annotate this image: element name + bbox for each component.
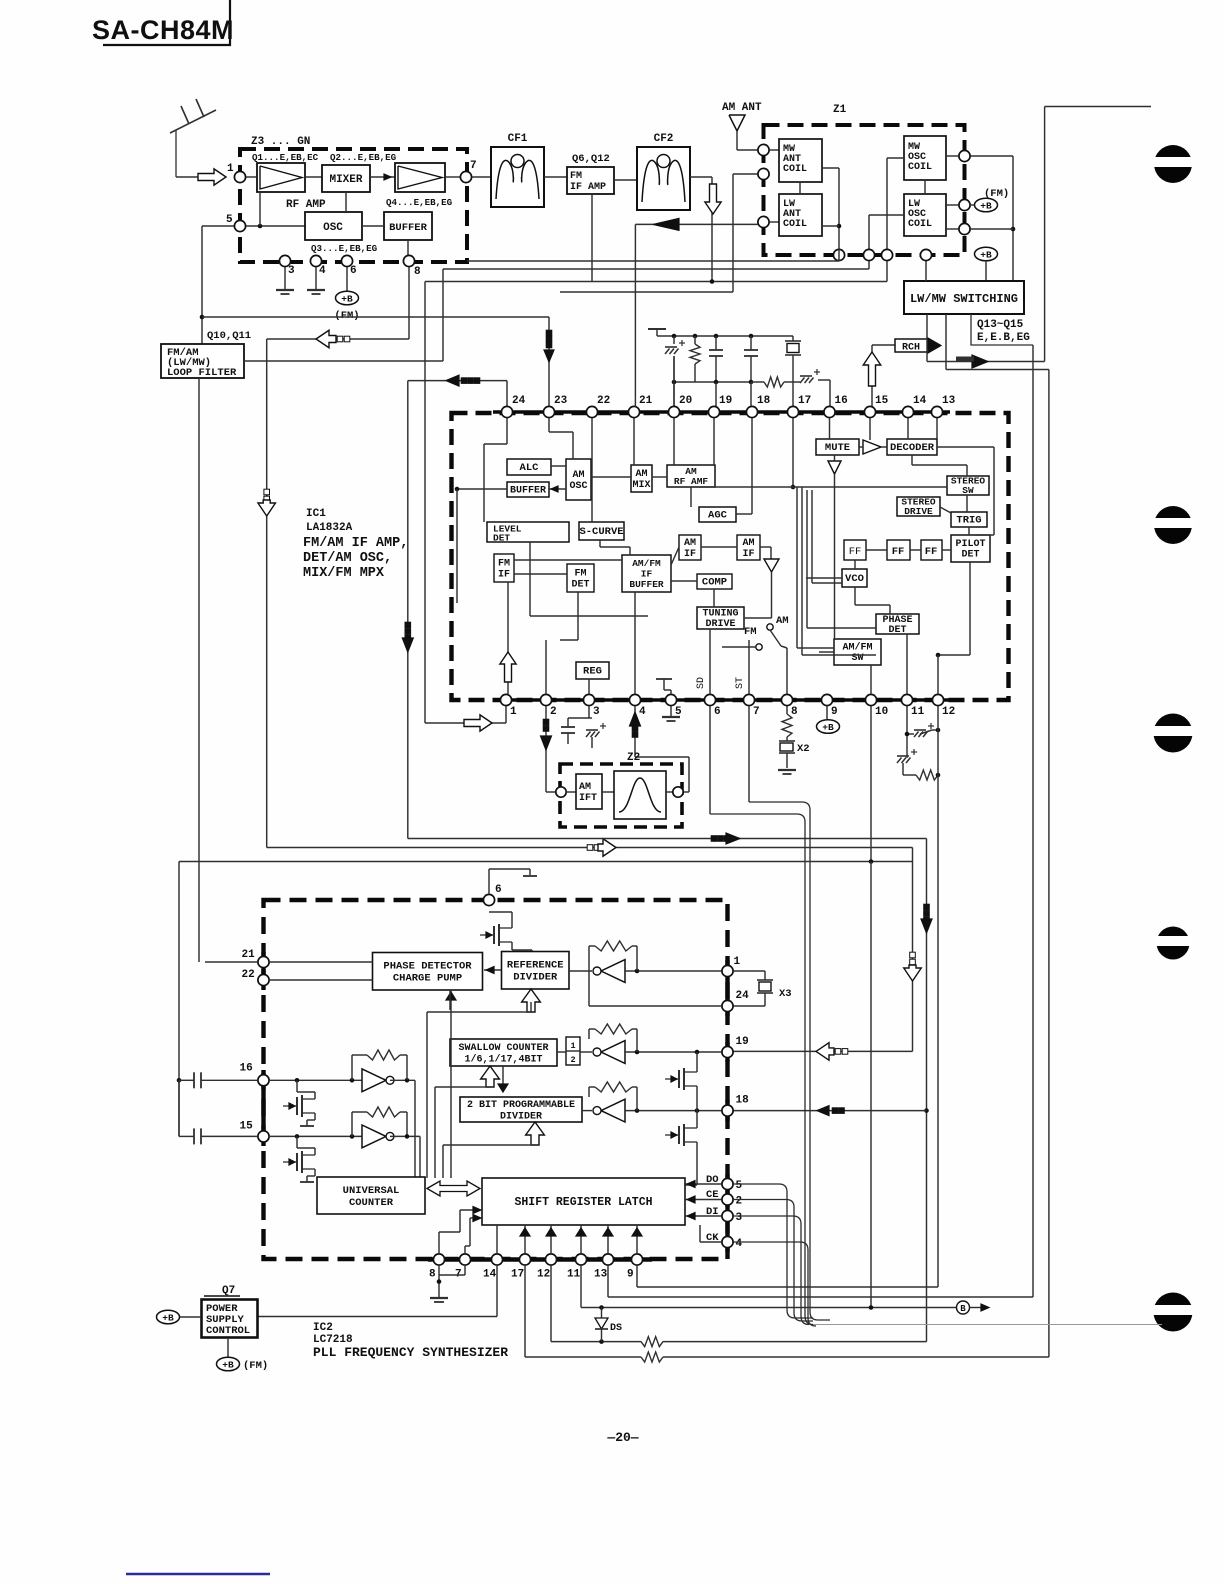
wire buffer to left node [455, 487, 507, 603]
transistor Q7 label [204, 1285, 240, 1297]
svg-text:CONTROL: CONTROL [206, 1325, 250, 1337]
limiter triangle [764, 559, 779, 572]
svg-text:23: 23 [554, 395, 568, 407]
svg-text:TRIG: TRIG [956, 515, 981, 527]
svg-text:7: 7 [470, 160, 477, 172]
wire pin 23 to AM osc [549, 418, 573, 459]
node line to IC1 pin 23 (osc sample) [200, 315, 549, 320]
svg-text:SW: SW [962, 485, 974, 496]
arrow into reference divider [522, 989, 541, 1012]
wire pin 7 riser ST [735, 640, 749, 694]
svg-text:COIL: COIL [908, 219, 932, 230]
svg-text:DET/AM OSC,: DET/AM OSC, [303, 551, 392, 566]
resistor on pin 17 line [641, 1352, 1049, 1362]
IC1 pin 15 [864, 395, 888, 418]
wire FM det to pin 2 area [560, 592, 578, 640]
wire CK to shift register [700, 1225, 721, 1242]
Z1 right pin MW osc [959, 150, 970, 161]
wire osc feedback across bottom [267, 847, 913, 849]
wire AM IF chain [671, 547, 737, 565]
svg-text:Z2: Z2 [627, 752, 640, 764]
wire Q13 label frame down [1032, 345, 1034, 1297]
svg-text:+B: +B [341, 293, 353, 304]
ceramic filter CF1 [491, 133, 544, 207]
wire inverter 2 output to universal counter [419, 1136, 421, 1177]
IC1 top pin bus [493, 410, 950, 413]
Z1 bottom pin c [881, 249, 892, 260]
crystal X3 [734, 971, 792, 1006]
arrow reference divider to charge pump [484, 967, 501, 974]
svg-text:LA1832A: LA1832A [306, 522, 353, 534]
svg-text:BUFFER: BUFFER [510, 485, 546, 496]
svg-text:SA-CH84M: SA-CH84M [92, 15, 234, 45]
universal counter block [317, 1177, 425, 1214]
wire pin 2 riser [545, 640, 547, 694]
IC1 part label [303, 508, 408, 581]
pin 5 of Z3 [226, 214, 246, 232]
svg-text:DRIVE: DRIVE [904, 506, 933, 517]
IC1 pin 20 [668, 395, 692, 418]
level detector block [487, 522, 569, 544]
svg-text:17: 17 [511, 1269, 524, 1281]
svg-text:MIX/FM MPX: MIX/FM MPX [303, 566, 385, 581]
pin 16 inverter feedback resistor [352, 1050, 407, 1080]
svg-text:20: 20 [679, 395, 692, 407]
S-curve block [579, 522, 624, 540]
ground tick at pin 5 [656, 679, 672, 694]
svg-text:ALC: ALC [520, 462, 540, 474]
resistor at pin 12 bottom [916, 728, 940, 780]
wire pin 2 to Z2 with arrow [541, 706, 556, 792]
wire pin 11 to B supply [581, 1265, 956, 1310]
pin 7 of Z3 [460, 160, 476, 183]
svg-text:AM: AM [776, 615, 789, 627]
MOSFET at pin 15 [283, 1136, 315, 1182]
programmable divider block [460, 1097, 582, 1122]
swallow counter block [450, 1039, 557, 1066]
reference oscillator feedback resistor [589, 941, 637, 1006]
svg-text:DS: DS [610, 1323, 622, 1334]
IC2 pin 12 [537, 1254, 557, 1281]
wire AM line under CF area [560, 174, 757, 292]
svg-text:22: 22 [597, 395, 610, 407]
svg-text:S-CURVE: S-CURVE [579, 526, 623, 538]
svg-text:6: 6 [495, 884, 502, 896]
ground at pin 5 [662, 706, 680, 721]
svg-text:FM: FM [498, 559, 510, 570]
pin 16 line to inverter [269, 1078, 362, 1083]
svg-text:Q2...E,EB,EG: Q2...E,EB,EG [330, 152, 397, 163]
wire pin 7 route down [749, 706, 830, 1320]
AM OSC block [566, 459, 591, 500]
AM line arrow from Z1 [635, 218, 758, 230]
svg-text:FF: FF [849, 546, 862, 558]
wire FM IF to FM det [514, 573, 567, 575]
IC1 pin 24 [501, 395, 525, 418]
svg-text:16: 16 [240, 1062, 253, 1074]
pin 19 feedback resistor [589, 1024, 637, 1052]
svg-text:IF: IF [641, 568, 653, 579]
svg-text:24: 24 [736, 990, 750, 1002]
footer rule [126, 1573, 270, 1576]
wire CE to shift register [685, 1196, 721, 1203]
FM IF amplifier Q6 Q12 [567, 153, 614, 194]
flip flop FF2 [887, 540, 910, 560]
svg-text:RF AMF: RF AMF [674, 476, 709, 487]
svg-text:DIVIDER: DIVIDER [500, 1111, 542, 1122]
mixer Q2 [322, 152, 397, 192]
svg-text:FM: FM [574, 569, 586, 580]
wire pin 13 to decoder [936, 418, 938, 439]
wire across under Z2 [408, 838, 927, 840]
signal arrow into pin 1 [198, 163, 234, 185]
svg-text:22: 22 [242, 969, 255, 981]
pin 1 of Z3 [234, 171, 245, 182]
IC2 pin 13 [594, 1254, 614, 1281]
svg-text:15: 15 [240, 1120, 254, 1132]
IC1 pin 3 [583, 694, 600, 718]
IC2 pin 16 [240, 1062, 270, 1086]
wire stereo sw to agc line [700, 486, 947, 488]
shift register latch block [482, 1178, 685, 1225]
pin 16 inverter with bubble [362, 1069, 415, 1092]
VCO block [842, 569, 867, 587]
wire S-curve to buffer [600, 540, 630, 555]
capacitor at pin 3 [561, 706, 589, 744]
svg-text:SHIFT REGISTER LATCH: SHIFT REGISTER LATCH [514, 1196, 652, 1209]
oscillator OSC [305, 212, 378, 254]
IC1 pin 19 [708, 395, 732, 418]
LW oscillator coil [904, 194, 946, 236]
bidirectional bus arrow [427, 1181, 480, 1196]
wire Z1 pin c down [886, 261, 888, 282]
IC1 pin 16 [824, 395, 848, 418]
wire CF2 output down to IC1 FM input [690, 177, 712, 282]
wires antenna coils to tank node [822, 168, 841, 249]
IC1 pin 2 [540, 694, 556, 718]
svg-text:(FM): (FM) [334, 310, 359, 322]
wire FM input to IC1 pin 1 [425, 706, 506, 731]
buffer Q4 [384, 197, 453, 240]
wire limiter to tuning drive [744, 572, 772, 618]
svg-text:FM/AM IF AMP,: FM/AM IF AMP, [303, 536, 408, 551]
wire stereo drive to trig [940, 507, 951, 513]
wire mixer to OSC [345, 192, 347, 212]
pin 3 of Z3 with ground [279, 255, 295, 277]
svg-text:5: 5 [226, 214, 233, 226]
wire pin 4 riser [634, 592, 636, 694]
svg-text:OSC: OSC [323, 222, 343, 234]
svg-text:ST: ST [735, 677, 746, 689]
page number [606, 1430, 638, 1445]
ceramic filter CF2 [637, 133, 690, 210]
tuning drive block [697, 607, 744, 630]
AM IF block 1 [679, 535, 701, 560]
svg-text:RF AMP: RF AMP [286, 199, 326, 211]
wire loop filter output [244, 360, 443, 362]
wire pin5 node to OSC [246, 192, 305, 228]
wire inverter output to universal counter [414, 1080, 416, 1177]
flow arrow BB right mid [587, 839, 616, 857]
wire AM/FM sw to pin 10 [870, 665, 872, 694]
wire pin 22 to S-curve [591, 418, 593, 522]
AM/FM switch block [834, 639, 881, 665]
wire pin 17 scan line [525, 1265, 641, 1357]
MOSFET below pin 18 [665, 1111, 697, 1185]
IC2 pin 24 [722, 990, 749, 1012]
svg-text:AM ANT: AM ANT [722, 102, 762, 114]
svg-text:PHASE DETECTOR: PHASE DETECTOR [383, 961, 472, 973]
wire pilot det down [936, 562, 970, 657]
wire pin 6 route down [710, 706, 813, 1325]
svg-text:Q3...E,EB,EG: Q3...E,EB,EG [311, 243, 378, 254]
svg-text:1: 1 [227, 163, 234, 175]
svg-text:AM: AM [742, 538, 754, 549]
IC1 pin 1 [500, 694, 517, 718]
wire AM RF amp to AGC [690, 487, 692, 507]
ALC block [507, 459, 551, 475]
svg-text:11: 11 [567, 1269, 581, 1281]
IC2 pin 7 [455, 1254, 471, 1281]
IC1 pin 5 [665, 694, 682, 718]
Z1 bottom pin a [833, 249, 844, 260]
IC2 pin 15 [240, 1120, 270, 1142]
electrolytic capacitor at pin 3 [586, 718, 606, 748]
wire trig to pilot det [968, 527, 970, 535]
crystal X2 [778, 737, 810, 774]
svg-text:3: 3 [736, 1212, 743, 1224]
svg-text:1/6,1/17,4BIT: 1/6,1/17,4BIT [464, 1053, 542, 1065]
decoder block [887, 439, 937, 455]
wire charge pump down [449, 990, 451, 1010]
svg-text:6: 6 [350, 265, 357, 277]
wire pin 3 to REG [588, 679, 590, 694]
wire pin 21 to charge pump [205, 961, 373, 963]
svg-text:BUFFER: BUFFER [389, 222, 428, 234]
svg-text:AM: AM [579, 782, 591, 793]
pilot detector block [951, 535, 990, 562]
antenna coil pack Z1 dashed outline [764, 104, 965, 255]
wire Z3 pin 8 buffered osc out [408, 267, 410, 339]
svg-text:B: B [960, 1304, 966, 1314]
wire antenna to pin 1 [176, 176, 198, 178]
wire mute triangle to AM/FM sw [834, 474, 836, 639]
LW antenna coil [769, 194, 822, 236]
wire osc coil feeds [869, 158, 904, 249]
wire pin 10 down [870, 706, 872, 862]
wire pin 12 long down [937, 706, 939, 1287]
swallow counter mode box [557, 1037, 580, 1065]
svg-text:BUFFER: BUFFER [629, 579, 664, 590]
wire pin 9 line [637, 1265, 938, 1287]
svg-text:2: 2 [736, 1196, 743, 1208]
IC1 pin 4 [629, 694, 646, 718]
IC2 part label [313, 1322, 508, 1360]
wire between antenna coils [799, 182, 801, 194]
wire buffer to pin 8 [407, 240, 409, 255]
FM/AM mode switch [744, 615, 789, 694]
svg-text:FM: FM [570, 171, 582, 182]
wire to IC2 pin 18 with arrow [733, 1106, 929, 1116]
wire VCO to FF1 [854, 560, 856, 569]
Z1 left pin a [758, 144, 769, 155]
svg-text:Z3 ... GN: Z3 ... GN [251, 136, 310, 148]
arrow into programmable divider [526, 1122, 545, 1145]
arrow swallow to divider link [498, 1066, 508, 1092]
resistor to pin 16 branch [751, 377, 800, 387]
wires shift register to bottom pins [497, 1225, 642, 1254]
wire OSC to buffer [362, 225, 384, 227]
wire AM mix to AM RF amp [652, 476, 667, 478]
AM/FM IF buffer block [622, 555, 671, 592]
wire FM IF node across [425, 279, 887, 721]
AM antenna [722, 102, 762, 150]
wire pin 10 node line [179, 859, 913, 1307]
IC2 pin 18 [722, 1095, 749, 1117]
+B supply at pin 9 [817, 706, 840, 733]
wire pin 16 to mute [829, 418, 831, 439]
MW antenna coil [769, 139, 822, 182]
wire audio to top edge [1045, 107, 1151, 362]
Z1 left pin c [758, 216, 769, 227]
svg-text:MIXER: MIXER [329, 174, 362, 186]
svg-text:15: 15 [875, 395, 889, 407]
resistor at pin 8 [782, 706, 792, 737]
IC1 pin 8 [781, 694, 798, 718]
MOSFET at pin 16 [283, 1080, 315, 1126]
svg-text:DECODER: DECODER [890, 442, 935, 454]
svg-text:4: 4 [639, 706, 646, 718]
svg-text:DET: DET [571, 580, 589, 591]
+B (FM) supply at Z1 [970, 188, 1009, 212]
transistor Q4 IF amplifier stage [395, 163, 445, 192]
svg-text:CF2: CF2 [654, 133, 674, 145]
svg-text:CHARGE PUMP: CHARGE PUMP [393, 973, 462, 985]
flow arrow black left [408, 375, 507, 386]
IC1 pin 18 [746, 395, 770, 418]
FM/AM loop filter Q10 Q11 [161, 330, 251, 379]
wire FM IF to AM/FM buffer [514, 559, 622, 561]
svg-text:8: 8 [414, 266, 421, 278]
svg-text:12: 12 [942, 706, 955, 718]
wire DI to shift register [685, 1213, 721, 1220]
IC2 pin 17 [511, 1254, 531, 1281]
wire between osc coils [924, 180, 926, 194]
svg-text:AM: AM [684, 538, 696, 549]
wire decoder to pilot det [937, 447, 994, 535]
+B supply to switching [975, 247, 998, 281]
transistors Q13-Q15 label [971, 314, 1033, 345]
wire pin 24 into level det [484, 418, 507, 522]
wire Z1 pin d to switching [925, 261, 927, 281]
MOSFET at pin 6 [480, 912, 532, 952]
svg-text:AM: AM [635, 469, 647, 480]
ground at IC2 pins 8 7 [430, 1265, 465, 1302]
input capacitor pin 16 [179, 1072, 257, 1088]
wire pin 15 to buffer triangle [869, 418, 871, 440]
wire FF chain [866, 549, 951, 551]
svg-text:IF: IF [684, 549, 696, 560]
svg-text:13: 13 [594, 1269, 608, 1281]
svg-text:AM/FM: AM/FM [632, 558, 661, 569]
Z2 left pin [556, 787, 566, 797]
svg-text:+B: +B [162, 1312, 174, 1323]
IC1 pin 10 [865, 694, 888, 718]
wire pin 12 scan line [551, 1265, 641, 1342]
IC2 pin 21 [242, 949, 270, 968]
IC2 pin 22 [242, 969, 270, 986]
pin 18 inverter [582, 1099, 721, 1122]
pin 15 inverter feedback resistor [352, 1107, 409, 1139]
flow arrow black right [711, 833, 740, 844]
svg-text:18: 18 [736, 1095, 750, 1107]
wire VCO input [806, 577, 842, 579]
svg-text:AM/FM: AM/FM [842, 642, 872, 654]
MW oscillator coil [904, 136, 946, 180]
IC1 dashed outline [452, 413, 1009, 700]
wire Z1 AM signal to pin 21 [634, 224, 636, 407]
wire osc sample to IC1 pin 23 [544, 317, 554, 407]
wire decoder to stereo sw [912, 455, 967, 476]
svg-text:3: 3 [593, 706, 600, 718]
svg-text:Q4...E,EB,EG: Q4...E,EB,EG [386, 197, 453, 208]
wire switching output loop [946, 314, 1049, 1357]
osc supply bus right of Z1 [971, 156, 1015, 281]
pin 8 of Z3 [403, 255, 421, 278]
reference divider block [502, 952, 570, 990]
wire osc feedback down left side [266, 339, 268, 848]
wire pin 5 to loop filter [202, 226, 234, 344]
svg-text:18: 18 [757, 395, 771, 407]
buffer block [507, 482, 549, 497]
wire pin 14 to decoder [907, 418, 909, 439]
svg-text:13: 13 [942, 395, 956, 407]
AGC block [699, 507, 736, 522]
svg-text:VCO: VCO [845, 573, 864, 585]
MUTE block [816, 439, 859, 455]
wire DO to shift register [685, 1181, 721, 1188]
audio out arrow right [927, 355, 1045, 368]
svg-text:1: 1 [570, 1041, 575, 1051]
IC1 pin 14 [902, 395, 926, 418]
wire pin 21 to AM mix [633, 418, 635, 465]
IC1 pin 21 [628, 395, 652, 418]
FM IF block [494, 554, 514, 582]
wire IC1 pin 15 to RCH with arrow [863, 345, 881, 407]
svg-text:IF: IF [742, 549, 754, 560]
svg-text:REFERENCE: REFERENCE [507, 960, 564, 972]
svg-text:17: 17 [798, 395, 811, 407]
IC2 pin 1 [722, 956, 741, 977]
wires pins 8 and 7 up into latch [439, 1207, 481, 1255]
capacitor pin 18 rail [744, 336, 758, 382]
regulator block [576, 662, 609, 679]
flow arrow down on CF2 output [705, 184, 721, 214]
svg-text:+B: +B [980, 200, 992, 211]
+B FM from power control [217, 1338, 269, 1372]
svg-text:12: 12 [537, 1269, 550, 1281]
svg-text:DET: DET [493, 533, 510, 544]
IC2 pin 6 top [483, 884, 501, 906]
svg-text:FF: FF [892, 546, 905, 558]
arrow into swallow counter [480, 1066, 499, 1087]
wire AM/FM buffer to comp [671, 580, 697, 582]
svg-text:LOOP FILTER: LOOP FILTER [167, 367, 237, 379]
flow arrow BB left [267, 330, 409, 348]
FM DET block [567, 564, 594, 592]
buffer triangle to decoder [859, 440, 887, 454]
page title SA-CH84M [92, 0, 234, 45]
